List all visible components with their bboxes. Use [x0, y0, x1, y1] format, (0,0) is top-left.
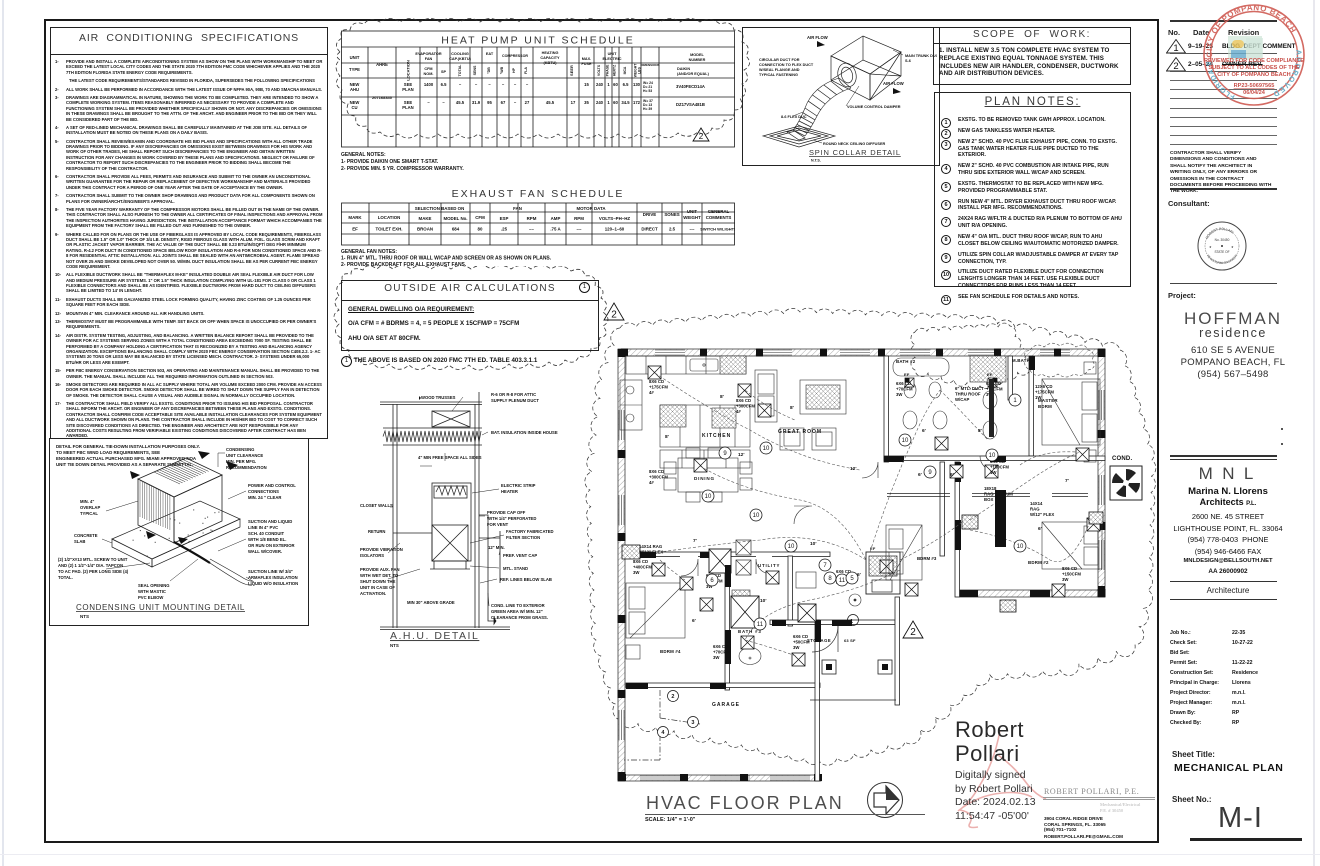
porch: [812, 626, 838, 652]
svg-text:NTS: NTS: [80, 614, 89, 619]
svg-text:OVERLAP: OVERLAP: [80, 505, 100, 510]
svg-text:6': 6': [692, 618, 696, 624]
svg-text:8X6 CD: 8X6 CD: [649, 379, 664, 384]
svg-text:EF: EF: [987, 372, 993, 377]
svg-text:8X6 CD: 8X6 CD: [649, 469, 664, 474]
svg-text:THRU ROOF: THRU ROOF: [955, 391, 981, 396]
svg-text:UNIT: UNIT: [687, 209, 698, 214]
svg-text:6X6 CD: 6X6 CD: [713, 644, 728, 649]
svg-text:ELECTRIC STRIP: ELECTRIC STRIP: [501, 483, 536, 488]
svg-text:+300CFM: +300CFM: [649, 474, 668, 479]
svg-text:2- PROVIDE MIN. 5 YR. COMPRESS: 2- PROVIDE MIN. 5 YR. COMPRESSOR WARRANT…: [341, 166, 464, 172]
svg-text:GARAGE: GARAGE: [712, 702, 740, 708]
supply diffusers: [648, 366, 661, 379]
north arrow: [866, 781, 904, 819]
svg-text:AND (2) 1 1/2"-1/4" DIA. TAPCO: AND (2) 1 1/2"-1/4" DIA. TAPCON: [58, 563, 123, 568]
svg-text:UNIT IN CASE OF: UNIT IN CASE OF: [360, 585, 395, 590]
svg-text:(2) 1/2"X#13 MTL. SCREW TO UNI: (2) 1/2"X#13 MTL. SCREW TO UNIT: [58, 557, 128, 562]
svg-text:SEAL OPENING: SEAL OPENING: [138, 583, 170, 588]
svg-text:NTS: NTS: [390, 643, 399, 648]
svg-text:WEIGHT: WEIGHT: [683, 215, 701, 220]
svg-text:SELECTION BASED ON: SELECTION BASED ON: [415, 206, 465, 211]
bottom faint line: [0, 854, 1320, 855]
svg-text:10: 10: [763, 446, 770, 452]
bedroom 4 bed: [626, 583, 685, 659]
svg-text:PREF. VENT CAP: PREF. VENT CAP: [503, 553, 537, 558]
svg-text:8': 8': [665, 434, 669, 440]
bath #3, utility, storage: [732, 572, 816, 665]
svg-text:8X6 CD: 8X6 CD: [1062, 566, 1077, 571]
svg-text:RETURN: RETURN: [368, 529, 385, 534]
svg-text:+150CFM: +150CFM: [1062, 571, 1081, 576]
svg-text:EF: EF: [352, 227, 358, 232]
svg-text:––: ––: [690, 227, 695, 232]
svg-text:MAKE: MAKE: [419, 216, 432, 221]
svg-text:CFM: CFM: [475, 215, 485, 220]
svg-text:BDRM #2: BDRM #2: [1028, 560, 1049, 565]
svg-text:RPM: RPM: [574, 216, 584, 221]
svg-text:4#: 4#: [736, 409, 741, 414]
svg-text:12': 12': [850, 466, 856, 472]
svg-text:2: 2: [671, 694, 674, 700]
AHU DETAIL: [360, 383, 610, 649]
svg-text:W/CAP: W/CAP: [955, 397, 969, 402]
svg-text:12X6 CD: 12X6 CD: [1035, 384, 1052, 389]
svg-text:8': 8': [720, 394, 724, 400]
svg-text:10': 10': [760, 598, 766, 604]
svg-text:FOR VENT: FOR VENT: [487, 522, 509, 527]
svg-text:CLEARANCE FROM GRASS.: CLEARANCE FROM GRASS.: [491, 615, 548, 620]
right page scan edge: [1313, 0, 1315, 866]
svg-text:CONNECTIONS: CONNECTIONS: [248, 489, 279, 494]
svg-text:OR RUN ON EXTERIOR: OR RUN ON EXTERIOR: [248, 543, 295, 548]
svg-text:MIN. 24 " CLEAR: MIN. 24 " CLEAR: [248, 495, 281, 500]
svg-text:6X6 CD: 6X6 CD: [793, 634, 808, 639]
svg-text:11: 11: [839, 578, 846, 584]
svg-text:+175CFM: +175CFM: [649, 384, 668, 389]
rev triangle 2: [603, 302, 625, 322]
svg-text:POWER AND CONTROL: POWER AND CONTROL: [248, 483, 296, 488]
svg-text:TOILET EXH.: TOILET EXH.: [376, 227, 403, 232]
svg-text:14X14: 14X14: [1030, 501, 1043, 506]
svg-text:M.BATH: M.BATH: [1012, 358, 1030, 363]
svg-text:GREAT ROOM: GREAT ROOM: [778, 429, 822, 435]
svg-text:REF. LINES BELOW SLAB: REF. LINES BELOW SLAB: [500, 577, 552, 582]
svg-text:SUBJECT TO ALL CODES OF THE: SUBJECT TO ALL CODES OF THE: [1209, 65, 1300, 71]
svg-text:10: 10: [989, 453, 996, 459]
bedroom 3: [886, 525, 922, 580]
bath #2: [893, 356, 1006, 439]
svg-text:FILTER SECTION: FILTER SECTION: [506, 535, 540, 540]
svg-text:10: 10: [705, 494, 712, 500]
HEAT PUMP UNIT SCHEDULE area: [341, 30, 735, 175]
svg-text:TOTAL.: TOTAL.: [58, 575, 73, 580]
svg-text:06/04/24: 06/04/24: [1243, 90, 1266, 96]
svg-text:BDRM #3: BDRM #3: [917, 556, 937, 561]
svg-text:+400CFM: +400CFM: [633, 564, 652, 569]
svg-text:S-6: S-6: [905, 59, 911, 63]
svg-text:6X6 CD: 6X6 CD: [896, 381, 911, 386]
svg-text:10: 10: [788, 544, 795, 550]
svg-text:SWITCH W/LIGHTS: SWITCH W/LIGHTS: [700, 227, 735, 232]
svg-text:BAT. INSULATION INSIDE HOUSE: BAT. INSULATION INSIDE HOUSE: [491, 430, 558, 435]
thick wall chunks near bdrm3: [995, 490, 1006, 547]
svg-text:1W: 1W: [1035, 395, 1042, 400]
svg-text:+150CFM: +150CFM: [990, 464, 1009, 469]
svg-text:––: ––: [577, 227, 582, 232]
svg-text:COND. LINE TO EXTERIOR: COND. LINE TO EXTERIOR: [491, 603, 545, 608]
svg-text:8X6 CD: 8X6 CD: [736, 398, 751, 403]
great room furniture: [755, 370, 846, 450]
svg-text:8': 8': [978, 428, 982, 434]
svg-text:80: 80: [478, 227, 483, 232]
svg-text:MODEL No.: MODEL No.: [443, 216, 467, 221]
svg-text:+70CFM: +70CFM: [896, 386, 913, 391]
outside air calc box: [341, 280, 599, 351]
svg-text:8X6 CD: 8X6 CD: [633, 559, 648, 564]
svg-text:REGISTERED ENGINEER: REGISTERED ENGINEER: [1206, 253, 1239, 265]
svg-text:EF: EF: [904, 372, 910, 377]
svg-text:1W: 1W: [990, 470, 997, 475]
svg-text:6" MTL. DUCT: 6" MTL. DUCT: [955, 386, 984, 391]
svg-text:DETAIL FOR GENERAL TIE-DOWN IN: DETAIL FOR GENERAL TIE-DOWN INSTALLATION…: [56, 444, 200, 449]
svg-text:6': 6': [918, 472, 922, 478]
svg-text:CONDENSING: CONDENSING: [226, 447, 254, 452]
svg-text:2: 2: [910, 627, 916, 638]
svg-text:WITH WET DET. TO: WITH WET DET. TO: [360, 573, 399, 578]
svg-text:CONNECTION TO FLEX DUCT: CONNECTION TO FLEX DUCT: [759, 63, 814, 67]
FLOOR PLAN: [560, 290, 1160, 800]
svg-text:GENERAL: GENERAL: [708, 209, 730, 214]
svg-text:SUPPLY PLENUM DUCT: SUPPLY PLENUM DUCT: [491, 398, 539, 403]
OUTSIDE AIR CALCULATIONS: [341, 280, 601, 375]
svg-text:SUCTION LINE W/ 3/4": SUCTION LINE W/ 3/4": [248, 569, 293, 574]
EXHAUST FAN SCHEDULE area: [341, 185, 735, 269]
svg-text:ROUND NECK CEILING DIFFUSER: ROUND NECK CEILING DIFFUSER: [823, 142, 885, 146]
exterior walls: [618, 349, 1105, 781]
svg-text:4#: 4#: [649, 390, 654, 395]
svg-text:6': 6': [950, 472, 954, 478]
svg-text:PVC ELBOW: PVC ELBOW: [138, 595, 163, 600]
svg-text:RP23-50697565: RP23-50697565: [1234, 83, 1275, 89]
svg-text:MIN. 4": MIN. 4": [80, 499, 94, 504]
svg-text:10: 10: [753, 513, 760, 519]
svg-text:WITH MASTIC: WITH MASTIC: [138, 589, 166, 594]
svg-text:W/12" FLEX: W/12" FLEX: [1030, 512, 1054, 517]
svg-text:WITH 1/4" PERFORATED: WITH 1/4" PERFORATED: [487, 516, 536, 521]
svg-text:3W: 3W: [896, 392, 903, 397]
dining table: [664, 448, 752, 502]
svg-text:★: ★: [1231, 245, 1234, 249]
svg-text:AIR FLOW: AIR FLOW: [807, 35, 828, 40]
svg-text:4" MIN FREE SPACE ALL SIDES: 4" MIN FREE SPACE ALL SIDES: [418, 455, 482, 460]
svg-text:No. 30450: No. 30450: [1215, 238, 1230, 242]
svg-text:SPIN COLLAR DETAIL: SPIN COLLAR DETAIL: [809, 148, 901, 157]
revision cloud around floor plan: [585, 308, 1156, 765]
svg-text:12" MIN.: 12" MIN.: [488, 545, 505, 550]
svg-text:AMP: AMP: [551, 216, 561, 221]
svg-text:BATH #2: BATH #2: [896, 359, 916, 364]
svg-text:10: 10: [1017, 544, 1024, 550]
svg-text:+70CFM: +70CFM: [986, 386, 1003, 391]
svg-text:2.5: 2.5: [669, 227, 676, 232]
svg-text:14X14 RAG: 14X14 RAG: [639, 544, 663, 549]
svg-text:+50CFM: +50CFM: [793, 639, 810, 644]
svg-text:GENERAL FAN NOTES:: GENERAL FAN NOTES:: [341, 249, 397, 255]
svg-text:6': 6': [1038, 526, 1042, 532]
svg-text:7': 7': [693, 538, 697, 544]
svg-text:PROVIDE CAP OFF: PROVIDE CAP OFF: [487, 510, 526, 515]
svg-text:120–1–60: 120–1–60: [605, 227, 625, 232]
svg-text:★: ★: [1209, 245, 1212, 249]
svg-text:GREEN AREA W/ MIN. 12": GREEN AREA W/ MIN. 12": [491, 609, 543, 614]
svg-text:TYPICAL FASTENING: TYPICAL FASTENING: [759, 73, 798, 77]
svg-text:12': 12': [738, 452, 744, 458]
signature block: [940, 705, 1160, 845]
AIR CONDITIONING SPECIFICATIONS box: [50, 27, 328, 439]
left page scan edge: [2, 0, 4, 866]
svg-text:EXHAUST FAN SCHEDULE: EXHAUST FAN SCHEDULE: [452, 188, 625, 200]
svg-text:TO MEET FBC WIND LOAD REQUIREM: TO MEET FBC WIND LOAD REQUIREMENTS, SEE: [56, 450, 160, 455]
svg-text:LINE IN 4" PVC: LINE IN 4" PVC: [248, 525, 278, 530]
svg-text:LOCATION: LOCATION: [378, 215, 401, 220]
svg-text:BROAN: BROAN: [417, 227, 433, 232]
svg-text:A.H.U. DETAIL: A.H.U. DETAIL: [390, 630, 479, 642]
svg-text:ARMAFLEX INSULATION: ARMAFLEX INSULATION: [248, 575, 298, 580]
svg-text:UTILITY: UTILITY: [758, 563, 780, 568]
return air grilles: [622, 545, 640, 559]
svg-text:+70CFM: +70CFM: [713, 649, 730, 654]
svg-text:N.T.S.: N.T.S.: [811, 159, 821, 163]
svg-text:11: 11: [757, 622, 764, 628]
svg-text:COND.: COND.: [1112, 456, 1132, 462]
door arcs: [681, 456, 995, 576]
svg-text:KITCHEN: KITCHEN: [702, 433, 731, 439]
svg-text:4#: 4#: [649, 480, 654, 485]
svg-text:BDRM: BDRM: [1038, 404, 1052, 409]
SCOPE OF WORK box: [933, 27, 1131, 85]
svg-text:MIN 30" ABOVE GRADE: MIN 30" ABOVE GRADE: [407, 600, 455, 605]
svg-text:7': 7': [1065, 478, 1069, 484]
svg-text:COMMENTS: COMMENTS: [706, 215, 732, 220]
red signature squiggle: [940, 715, 1080, 835]
svg-text:WALL W/COVER.: WALL W/COVER.: [248, 549, 282, 554]
svg-text:10': 10': [810, 541, 816, 547]
svg-text:63 SF: 63 SF: [844, 638, 856, 643]
revision cloud around outside air calc: [331, 266, 641, 386]
title block column: [1160, 0, 1313, 866]
svg-text:3W: 3W: [633, 570, 640, 575]
svg-text:VOLTS–PH–HZ: VOLTS–PH–HZ: [599, 216, 630, 221]
svg-text:STORAGE: STORAGE: [807, 638, 831, 643]
svg-text:FACTORY FABRICATED: FACTORY FABRICATED: [506, 529, 554, 534]
svg-text:BDRM #4: BDRM #4: [660, 649, 681, 654]
master bedroom bed: [1042, 362, 1100, 462]
corridor walls: [887, 494, 1088, 497]
svg-text:REVIEWED FOR CODE COMPLIANCE: REVIEWED FOR CODE COMPLIANCE: [1204, 58, 1304, 64]
SPIN COLLAR DETAIL box: [742, 27, 940, 166]
svg-text:.75 A: .75 A: [550, 227, 561, 232]
svg-text:SUCTION AND LIQUID: SUCTION AND LIQUID: [248, 519, 292, 524]
bedroom 2 bed: [1042, 522, 1102, 569]
svg-text:DINING: DINING: [694, 476, 715, 481]
svg-text:TYPICAL: TYPICAL: [80, 511, 98, 516]
svg-text:.25: .25: [501, 227, 508, 232]
svg-text:LIQUID W/O INSULATION: LIQUID W/O INSULATION: [248, 581, 298, 586]
svg-text:WITH 1/8 BEND EL.: WITH 1/8 BEND EL.: [248, 537, 286, 542]
svg-text:10: 10: [902, 438, 909, 444]
kitchen counters and island: [620, 356, 750, 468]
svg-text:PROVIDE VIBRATION: PROVIDE VIBRATION: [360, 547, 403, 552]
svg-text:3W: 3W: [1062, 577, 1069, 582]
svg-text:W/SEAL FLANGE AND: W/SEAL FLANGE AND: [759, 68, 800, 72]
svg-text:PROVIDE AUX. PAN: PROVIDE AUX. PAN: [360, 567, 400, 572]
svg-text:TO AC PAD. (2) PER LONG SIDE (: TO AC PAD. (2) PER LONG SIDE (4): [58, 569, 129, 574]
svg-text:ISOLATORS: ISOLATORS: [360, 553, 384, 558]
svg-text:VOLUME CONTROL DAMPER: VOLUME CONTROL DAMPER: [847, 105, 901, 109]
PLAN NOTES box: [934, 92, 1131, 287]
svg-text:CITY OF POMPANO BEACH: CITY OF POMPANO BEACH: [1217, 72, 1290, 78]
svg-text:CLOSET WALLS: CLOSET WALLS: [360, 503, 393, 508]
svg-text:HEATER: HEATER: [501, 489, 518, 494]
svg-text:ENGINEERED ACTUAL PURCHASED MF: ENGINEERED ACTUAL PURCHASED MFG. MIAMI A…: [56, 456, 197, 461]
svg-text:ESP: ESP: [500, 216, 509, 221]
svg-text:8': 8': [790, 405, 794, 411]
svg-text:STATE OF: STATE OF: [1214, 250, 1229, 254]
CONDENSING UNIT MOUNTING DETAIL box: [49, 438, 309, 626]
svg-text:+300CFM: +300CFM: [736, 403, 755, 408]
svg-text:SCH. 40 CONDUIT: SCH. 40 CONDUIT: [248, 531, 285, 536]
svg-text:SONES: SONES: [664, 212, 679, 217]
svg-text:UNIT CLEARANCE: UNIT CLEARANCE: [226, 453, 263, 458]
utility plenum boxes: [709, 549, 816, 628]
svg-text:DRIVE: DRIVE: [643, 212, 656, 217]
svg-text:AIR FLOW: AIR FLOW: [883, 81, 904, 86]
svg-text:R-6 OR R-8 FOR ATTIC: R-6 OR R-8 FOR ATTIC: [491, 392, 536, 397]
svg-text:W/12" FLEX: W/12" FLEX: [639, 549, 663, 554]
svg-text:3W: 3W: [713, 655, 720, 660]
svg-text:3W: 3W: [793, 645, 800, 650]
svg-text:6': 6': [922, 428, 926, 434]
svg-text:SHUT DOWN THE: SHUT DOWN THE: [360, 579, 396, 584]
flexible duct runs (dashed): [655, 373, 1090, 656]
svg-text:1- RUN 4" MTL. THRU ROOF OR WA: 1- RUN 4" MTL. THRU ROOF OR WALL W/CAP A…: [341, 256, 552, 262]
svg-text:MOTOR DATA: MOTOR DATA: [576, 206, 606, 211]
svg-text:MIN. PER MFG.: MIN. PER MFG.: [226, 459, 256, 464]
svg-text:FAN: FAN: [513, 206, 522, 211]
svg-text:––: ––: [529, 227, 534, 232]
plan note reference bubbles: [760, 442, 772, 454]
svg-text:CONDENSING UNIT MOUNTING DETAI: CONDENSING UNIT MOUNTING DETAIL: [76, 603, 245, 612]
svg-text:BOX: BOX: [984, 497, 993, 502]
svg-text:ACTIVATION.: ACTIVATION.: [360, 591, 386, 596]
svg-text:WOOD TRUSSES: WOOD TRUSSES: [421, 395, 456, 400]
svg-text:684: 684: [452, 227, 460, 232]
svg-text:RPM: RPM: [527, 216, 537, 221]
svg-text:CIRCULAR DUCT FOR: CIRCULAR DUCT FOR: [759, 58, 800, 62]
interior walls: [626, 356, 1105, 781]
svg-text:CONCRETE: CONCRETE: [74, 533, 98, 538]
svg-text:RECOMMENDATION: RECOMMENDATION: [226, 465, 267, 470]
svg-text:RAG: RAG: [1030, 506, 1040, 511]
extra wall chunks lower wing: [725, 565, 731, 587]
svg-text:SLAB: SLAB: [74, 539, 85, 544]
svg-text:MARK: MARK: [348, 215, 362, 220]
footnote: [341, 356, 352, 367]
small cloud near mbath EF: [1025, 343, 1095, 377]
svg-text:DIRECT: DIRECT: [641, 227, 658, 232]
revision cloud around heat pump schedule: [330, 18, 750, 163]
HVAC FLOOR PLAN title: [646, 793, 946, 814]
svg-text:3: 3: [691, 720, 694, 726]
svg-text:+175CFM: +175CFM: [1035, 389, 1054, 394]
svg-text:MTL. STAND: MTL. STAND: [503, 566, 528, 571]
